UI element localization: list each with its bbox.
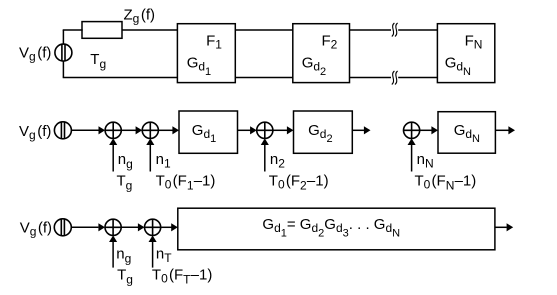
summer nN (404, 122, 420, 138)
voltage source Vg (top) (55, 44, 72, 61)
svg-text:Gd1: Gd1 (192, 122, 216, 145)
break marks top wire (392, 23, 398, 37)
block F1/Gd1 (177, 24, 235, 83)
wire summer n1 to block Gd1 (158, 129, 172, 131)
noise input ng (bottom): arrow, labels ng and Tg (112, 242, 114, 268)
voltage source Vg (bottom) (54, 219, 71, 236)
output arrow of equivalent block (495, 226, 507, 228)
noise input nT (bottom): arrow, labels nT and T0(FT-1) (152, 242, 154, 268)
noise input ng (middle): arrow, labels ng and Tg (112, 145, 114, 172)
block F2/Gd2 (293, 24, 350, 83)
svg-text:Vg(f): Vg(f) (20, 220, 52, 239)
noise input n2 (middle): arrow, labels n2 and T0(F2-1) (264, 145, 266, 172)
summer ng (bottom) (105, 219, 121, 235)
svg-text:FN: FN (465, 33, 483, 52)
output arrow of GdN (495, 129, 508, 131)
noise input n1 (middle): arrow, labels n1 and T0(F1-1) (149, 145, 151, 172)
wire Gd1 to summer n2 (238, 129, 251, 131)
wire bottom: F2 to break (350, 77, 392, 79)
svg-text:nN: nN (417, 151, 434, 171)
wire summer ng to summer nT (121, 226, 138, 228)
wire top: break to FN (398, 29, 437, 31)
wire summer ng to summer n1 (121, 129, 136, 131)
wire bottom: F1 to F2 (235, 77, 292, 79)
voltage source Vg (middle) (54, 122, 71, 139)
svg-text:n1: n1 (156, 151, 171, 171)
svg-text:Vg(f): Vg(f) (19, 123, 51, 142)
svg-text:T0(F1–1): T0(F1–1) (156, 173, 216, 193)
wire top: source to Zg (63, 29, 83, 31)
svg-text:Gd1= Gd2Gd3. . . GdN: Gd1= Gd2Gd3. . . GdN (262, 216, 400, 239)
wire summer nT to equivalent block (161, 226, 172, 228)
summer n2 (257, 122, 273, 138)
svg-text:Tg: Tg (117, 266, 133, 286)
svg-text:T0(FN–1): T0(FN–1) (415, 173, 477, 193)
block Gd2 middle (294, 111, 353, 153)
svg-text:Gd2: Gd2 (302, 55, 326, 78)
wire bottom: break to FN (398, 77, 437, 79)
wire source top vertical (62, 30, 64, 44)
svg-text:Gd2: Gd2 (308, 122, 332, 145)
svg-text:T0(FT–1): T0(FT–1) (152, 266, 212, 286)
equivalent block Gd1 = Gd2 Gd3 ... GdN (178, 208, 495, 250)
svg-text:F2: F2 (322, 33, 338, 52)
svg-text:ng: ng (116, 245, 131, 265)
wire source to summer ng (bottom) (71, 226, 98, 228)
summer ng (middle) (105, 122, 121, 138)
block Gd1 middle (179, 111, 238, 153)
svg-text:Gd1: Gd1 (187, 55, 211, 78)
wire bottom: source to F1 (63, 77, 178, 79)
svg-text:F1: F1 (206, 33, 222, 52)
summer nT (145, 219, 161, 235)
svg-text:nT: nT (156, 245, 172, 265)
svg-text:Tg: Tg (90, 51, 106, 71)
noise input nN (middle): arrow, labels nN and T0(FN-1) (411, 145, 413, 172)
svg-text:n2: n2 (270, 151, 285, 171)
wire top: F2 to break (350, 29, 392, 31)
svg-text:Vg(f): Vg(f) (19, 44, 51, 63)
wire summer n2 to block Gd2 (273, 129, 287, 131)
svg-text:Tg: Tg (117, 173, 133, 193)
wire top: F1 to F2 (235, 29, 292, 31)
svg-text:Zg(f): Zg(f) (124, 6, 156, 25)
wire top: Zg to F1 (122, 29, 177, 31)
block FN/GdN (437, 24, 494, 83)
output arrow of Gd2 (352, 129, 364, 131)
svg-text:GdN: GdN (454, 122, 480, 145)
wire source to summer ng (71, 129, 98, 131)
wire summer nN to block GdN (420, 129, 432, 131)
impedance Zg box (82, 22, 122, 39)
block GdN middle (438, 112, 495, 154)
wire source bottom vertical (62, 61, 64, 77)
break marks bottom wire (392, 71, 398, 85)
svg-text:GdN: GdN (445, 55, 471, 78)
svg-text:ng: ng (118, 151, 133, 171)
svg-text:T0(F2–1): T0(F2–1) (269, 173, 329, 193)
summer n1 (142, 122, 158, 138)
